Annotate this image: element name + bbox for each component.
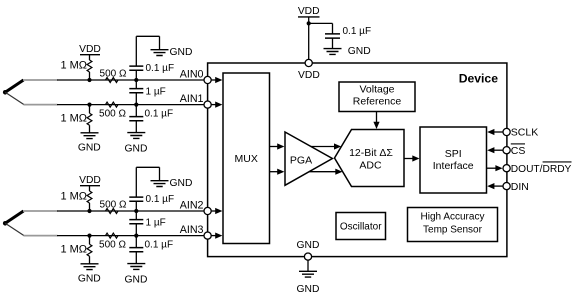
- node junction AIN2/filter caps: [134, 209, 138, 213]
- svg-text:SPI: SPI: [445, 148, 462, 160]
- wire AIN1 pin to MUX: [211, 102, 222, 108]
- capacitor 0.1 µF (AIN2 to GND): [129, 167, 159, 211]
- node junction AIN1/filter caps: [134, 103, 138, 107]
- svg-text:High Accuracy: High Accuracy: [421, 212, 485, 223]
- svg-text:GND: GND: [78, 143, 101, 154]
- svg-text:500 Ω: 500 Ω: [100, 199, 127, 210]
- wire CS pin to SPI: [487, 147, 503, 153]
- svg-text:Device: Device: [459, 71, 499, 85]
- wire PGA to ADC (lower): [309, 169, 342, 175]
- pin GND: [304, 253, 311, 260]
- resistor 1 MΩ pull-down to GND (AIN3): [87, 236, 92, 264]
- wire AIN2 line: [57, 210, 204, 212]
- wire MUX to PGA (lower): [270, 169, 285, 175]
- wire AIN2 pin to MUX: [211, 208, 222, 214]
- pin VDD: [305, 59, 312, 66]
- capacitor 1 µF (between AIN0 and AIN1): [129, 80, 143, 105]
- ground (bottom cap, pair AIN3): [127, 264, 145, 270]
- svg-text:GND: GND: [78, 274, 101, 285]
- wire MUX to PGA (upper): [270, 143, 285, 149]
- svg-text:MUX: MUX: [235, 153, 258, 165]
- wire thermocouple lead to AIN3 (gray): [24, 235, 58, 237]
- resistor 500 Ω series (AIN2): [106, 209, 119, 214]
- label CS (active low, overline): [511, 144, 526, 157]
- svg-text:0.1 µF: 0.1 µF: [146, 63, 175, 74]
- svg-text:Voltage: Voltage: [359, 84, 394, 96]
- device outline box: [208, 63, 507, 257]
- pin AIN3: [204, 232, 211, 239]
- svg-text:VDD: VDD: [298, 6, 320, 17]
- power VDD (pull-up rail, pair AIN0/AIN1): [79, 44, 101, 60]
- wire DIN pin to SPI: [487, 183, 503, 189]
- thermocouple input (pair AIN0/AIN1): [3, 80, 24, 105]
- wire AIN1 line: [57, 104, 204, 106]
- svg-text:GND: GND: [297, 240, 320, 251]
- node junction AIN3/filter caps: [134, 234, 138, 238]
- block SPI Interface: [420, 127, 487, 193]
- svg-text:SCLK: SCLK: [511, 127, 538, 139]
- svg-text:GND: GND: [297, 284, 320, 295]
- block High Accuracy Temp Sensor: [408, 208, 498, 242]
- svg-text:VDD: VDD: [298, 70, 320, 81]
- power VDD (pull-up rail, pair AIN2/AIN3): [79, 175, 101, 191]
- resistor 1 MΩ pull-down to GND (AIN1): [87, 105, 92, 133]
- capacitor 0.1 µF (AIN0 to GND): [129, 36, 159, 80]
- wire AIN0 pin to MUX: [211, 77, 222, 83]
- capacitor 0.1 µF (AIN1 to GND): [129, 105, 143, 133]
- svg-text:0.1 µF: 0.1 µF: [145, 239, 174, 250]
- ground (top cap, pair AIN0): [151, 50, 169, 56]
- svg-text:GND: GND: [170, 47, 193, 58]
- resistor 500 Ω series (AIN0): [106, 78, 119, 83]
- svg-text:AIN1: AIN1: [180, 93, 204, 105]
- wire SPI to DOUT/DRDY pin: [487, 165, 503, 171]
- wire AIN3 line: [57, 235, 204, 237]
- pin AIN0: [204, 76, 211, 83]
- svg-text:ADC: ADC: [359, 159, 382, 171]
- node junction AIN0/filter caps: [134, 78, 138, 82]
- svg-text:GND: GND: [170, 178, 193, 189]
- pin DIN: [503, 183, 510, 190]
- ground (device GND pin): [299, 271, 317, 277]
- pin AIN1: [204, 101, 211, 108]
- svg-text:AIN0: AIN0: [180, 69, 204, 81]
- capacitor 0.1 µF (VDD decoupling): [325, 34, 340, 49]
- svg-text:AIN2: AIN2: [180, 200, 204, 212]
- pin DOUT/DRDY: [503, 165, 510, 172]
- svg-text:1 MΩ: 1 MΩ: [60, 244, 87, 256]
- capacitor 1 µF (between AIN2 and AIN3): [129, 211, 143, 236]
- node junction AIN2/1MΩ: [87, 209, 91, 213]
- wire thermocouple lead to AIN1 (gray): [24, 104, 58, 106]
- svg-text:500 Ω: 500 Ω: [100, 68, 127, 79]
- wire VDD to decoupling cap: [309, 23, 333, 34]
- pin CS: [503, 147, 510, 154]
- wire thermocouple lead to AIN0 (gray): [23, 79, 58, 81]
- svg-text:0.1 µF: 0.1 µF: [343, 26, 372, 37]
- ground (1 MΩ pull-down, AIN1): [81, 133, 99, 139]
- svg-text:Interface: Interface: [433, 160, 474, 172]
- svg-text:CS: CS: [511, 145, 526, 157]
- ground (1 MΩ pull-down, AIN3): [81, 264, 99, 270]
- svg-text:Temp Sensor: Temp Sensor: [423, 225, 483, 236]
- svg-text:1 µF: 1 µF: [146, 218, 166, 229]
- node junction AIN3/1MΩ: [87, 234, 91, 238]
- resistor 1 MΩ pull-up to VDD (AIN2): [87, 191, 92, 211]
- wire Voltage Reference to ADC: [373, 112, 379, 130]
- svg-text:1 µF: 1 µF: [146, 87, 166, 98]
- svg-text:12-Bit ΔΣ: 12-Bit ΔΣ: [349, 147, 393, 159]
- wire AIN0 line: [57, 79, 204, 81]
- svg-text:1 MΩ: 1 MΩ: [60, 191, 87, 203]
- ground (top cap, pair AIN2): [151, 181, 169, 187]
- svg-text:VDD: VDD: [79, 44, 101, 55]
- svg-text:GND: GND: [125, 144, 148, 155]
- svg-text:Oscillator: Oscillator: [340, 222, 382, 233]
- svg-text:0.1 µF: 0.1 µF: [146, 194, 175, 205]
- pin AIN2: [204, 207, 211, 214]
- capacitor 0.1 µF (AIN3 to GND): [129, 236, 143, 264]
- svg-text:DOUT/DRDY: DOUT/DRDY: [511, 164, 572, 175]
- op-amp PGA (amplifier triangle): [285, 132, 332, 185]
- wire AIN3 pin to MUX: [211, 233, 222, 239]
- block Oscillator: [336, 213, 386, 240]
- svg-text:GND: GND: [348, 46, 371, 57]
- block MUX: [223, 73, 270, 244]
- resistor 500 Ω series (AIN1): [106, 102, 119, 107]
- wire GND pin to ground: [307, 260, 309, 271]
- svg-text:500 Ω: 500 Ω: [99, 108, 126, 119]
- svg-text:1 MΩ: 1 MΩ: [60, 113, 87, 125]
- wire PGA to ADC (upper): [311, 143, 341, 149]
- thermocouple input (pair AIN2/AIN3): [3, 211, 24, 236]
- wire ADC to SPI Interface: [404, 155, 420, 161]
- svg-text:500 Ω: 500 Ω: [99, 239, 126, 250]
- svg-text:GND: GND: [125, 275, 148, 286]
- svg-text:AIN3: AIN3: [180, 224, 204, 236]
- node junction AIN1/1MΩ: [87, 103, 91, 107]
- label DOUT/DRDY (DRDY overline): [511, 162, 572, 175]
- resistor 1 MΩ pull-up to VDD (AIN0): [87, 60, 92, 80]
- node junction AIN0/1MΩ: [87, 78, 91, 82]
- ground (bottom cap, pair AIN1): [127, 133, 145, 139]
- block Voltage Reference: [339, 82, 415, 112]
- svg-text:PGA: PGA: [290, 155, 312, 167]
- svg-text:Reference: Reference: [353, 95, 402, 107]
- block 12-Bit ΔΣ ADC: [335, 130, 405, 187]
- svg-text:1 MΩ: 1 MΩ: [60, 60, 87, 72]
- wire SCLK pin to SPI: [487, 129, 503, 135]
- pin SCLK: [503, 128, 510, 135]
- power VDD (supply rail at top): [298, 6, 320, 60]
- ground (decoupling cap): [324, 49, 342, 55]
- wire thermocouple lead to AIN2 (gray): [23, 210, 58, 212]
- svg-text:0.1 µF: 0.1 µF: [145, 108, 174, 119]
- svg-text:VDD: VDD: [79, 175, 101, 186]
- svg-text:DIN: DIN: [511, 181, 529, 193]
- resistor 500 Ω series (AIN3): [106, 233, 119, 238]
- node junction VDD/decoupling cap: [307, 21, 311, 25]
